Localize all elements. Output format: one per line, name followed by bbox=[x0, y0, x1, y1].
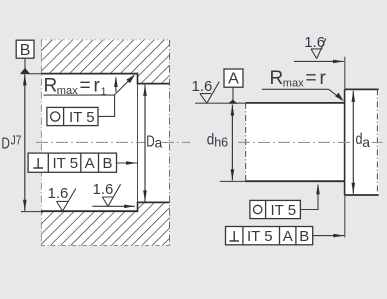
svg-text:D: D bbox=[1, 135, 10, 152]
roughness leader to shoulder face (shaft) bbox=[294, 60, 344, 62]
bore bottom extension line bbox=[21, 211, 41, 213]
datum B leader bbox=[24, 58, 26, 69]
svg-text:A: A bbox=[283, 228, 293, 245]
shaft centre line bbox=[238, 141, 383, 143]
datum B triangle bbox=[20, 68, 30, 74]
svg-text:r: r bbox=[320, 68, 327, 89]
housing bore surface bottom bbox=[41, 210, 138, 212]
shaft shoulder white bbox=[345, 89, 379, 195]
dimension D J7 bottom arrowhead bbox=[23, 200, 27, 211]
svg-text:1.6: 1.6 bbox=[48, 185, 69, 202]
svg-text:1.6: 1.6 bbox=[192, 78, 213, 95]
dimension Da line bbox=[144, 85, 146, 202]
housing bore surface top bbox=[41, 73, 138, 75]
housing shoulder bore top bbox=[138, 83, 170, 85]
seat top extension line bbox=[195, 102, 246, 104]
svg-text:=: = bbox=[306, 68, 317, 89]
roundness frame leader bbox=[98, 95, 115, 116]
svg-text:a: a bbox=[362, 134, 370, 150]
svg-text:h6: h6 bbox=[214, 136, 228, 150]
shaft seat bottom line bbox=[246, 180, 345, 182]
Rmax leader underline bbox=[44, 75, 135, 95]
Rmax leader underline bbox=[262, 89, 343, 100]
svg-text:IT 5: IT 5 bbox=[247, 228, 273, 245]
shaft shoulder top bbox=[345, 88, 379, 90]
Rmax leader arrowhead bbox=[126, 75, 135, 84]
housing shoulder bore bottom bbox=[138, 201, 170, 203]
svg-text:R: R bbox=[44, 76, 58, 97]
roundness frame (housing) bbox=[47, 107, 98, 125]
shaft shoulder face bbox=[344, 89, 346, 195]
housing break boundary bottom bbox=[41, 245, 170, 247]
datum B box bbox=[16, 40, 34, 58]
svg-text:B: B bbox=[20, 42, 31, 59]
housing break boundary left bbox=[40, 40, 42, 246]
perpendicularity frame (housing) bbox=[28, 153, 116, 172]
bore surface arrow (roundness leader) bbox=[115, 78, 117, 92]
dimension da line bbox=[352, 91, 354, 194]
bore top extension line bbox=[21, 73, 41, 75]
housing break boundary top bbox=[41, 39, 170, 41]
svg-text:IT 5: IT 5 bbox=[53, 155, 79, 172]
housing section white block bbox=[41, 40, 170, 246]
dimension D J7 line bbox=[24, 74, 26, 211]
shaft shoulder break line (right, dash-dot) bbox=[376, 89, 378, 195]
svg-text:1.6: 1.6 bbox=[93, 181, 114, 198]
svg-text:B: B bbox=[299, 228, 309, 245]
datum A triangle bbox=[228, 100, 237, 104]
roundness frame (shaft) bbox=[250, 200, 301, 218]
housing shoulder step top bbox=[137, 73, 139, 85]
shoulder face extension line up bbox=[344, 57, 346, 90]
svg-text:A: A bbox=[228, 71, 239, 88]
shaft seat break line (left, dash-dot) bbox=[245, 103, 247, 181]
svg-text:R: R bbox=[270, 68, 284, 89]
svg-text:IT 5: IT 5 bbox=[69, 109, 95, 126]
shaft seat top line bbox=[246, 102, 345, 104]
dimension D J7 top arrowhead bbox=[23, 74, 27, 85]
housing bottom hatch band bbox=[41, 202, 170, 245]
roundness frame leader (shaft) bbox=[300, 185, 318, 210]
shoulder face extension line down bbox=[344, 195, 346, 238]
datum A box bbox=[224, 69, 243, 87]
svg-text:d: d bbox=[207, 132, 215, 149]
svg-text:=: = bbox=[80, 76, 91, 97]
roughness leader to shoulder face (housing) bbox=[92, 205, 135, 207]
seat bottom extension line bbox=[220, 180, 246, 182]
svg-text:IT 5: IT 5 bbox=[271, 202, 297, 219]
svg-text:1: 1 bbox=[101, 86, 107, 98]
perpendicularity frame leader (shaft) bbox=[313, 235, 345, 237]
svg-text:B: B bbox=[102, 155, 112, 172]
housing shoulder face extension line bbox=[137, 84, 139, 202]
svg-text:max: max bbox=[283, 78, 304, 90]
housing centre line bbox=[36, 141, 190, 143]
perpendicularity frame leader bbox=[117, 162, 138, 164]
svg-text:J7: J7 bbox=[11, 133, 22, 148]
dimension d h6 line bbox=[231, 105, 233, 181]
housing top hatch band bbox=[41, 40, 170, 84]
svg-text:r: r bbox=[94, 76, 101, 97]
datum A leader bbox=[232, 87, 234, 100]
svg-text:A: A bbox=[85, 155, 95, 172]
svg-text:a: a bbox=[155, 134, 163, 150]
housing shoulder step bottom bbox=[137, 202, 139, 213]
shaft seat white bbox=[246, 103, 345, 181]
perpendicularity frame (shaft) bbox=[226, 227, 313, 245]
Rmax r leader arrowhead bbox=[335, 93, 344, 102]
shaft shoulder bottom bbox=[345, 194, 379, 196]
housing break boundary right bbox=[169, 40, 171, 246]
